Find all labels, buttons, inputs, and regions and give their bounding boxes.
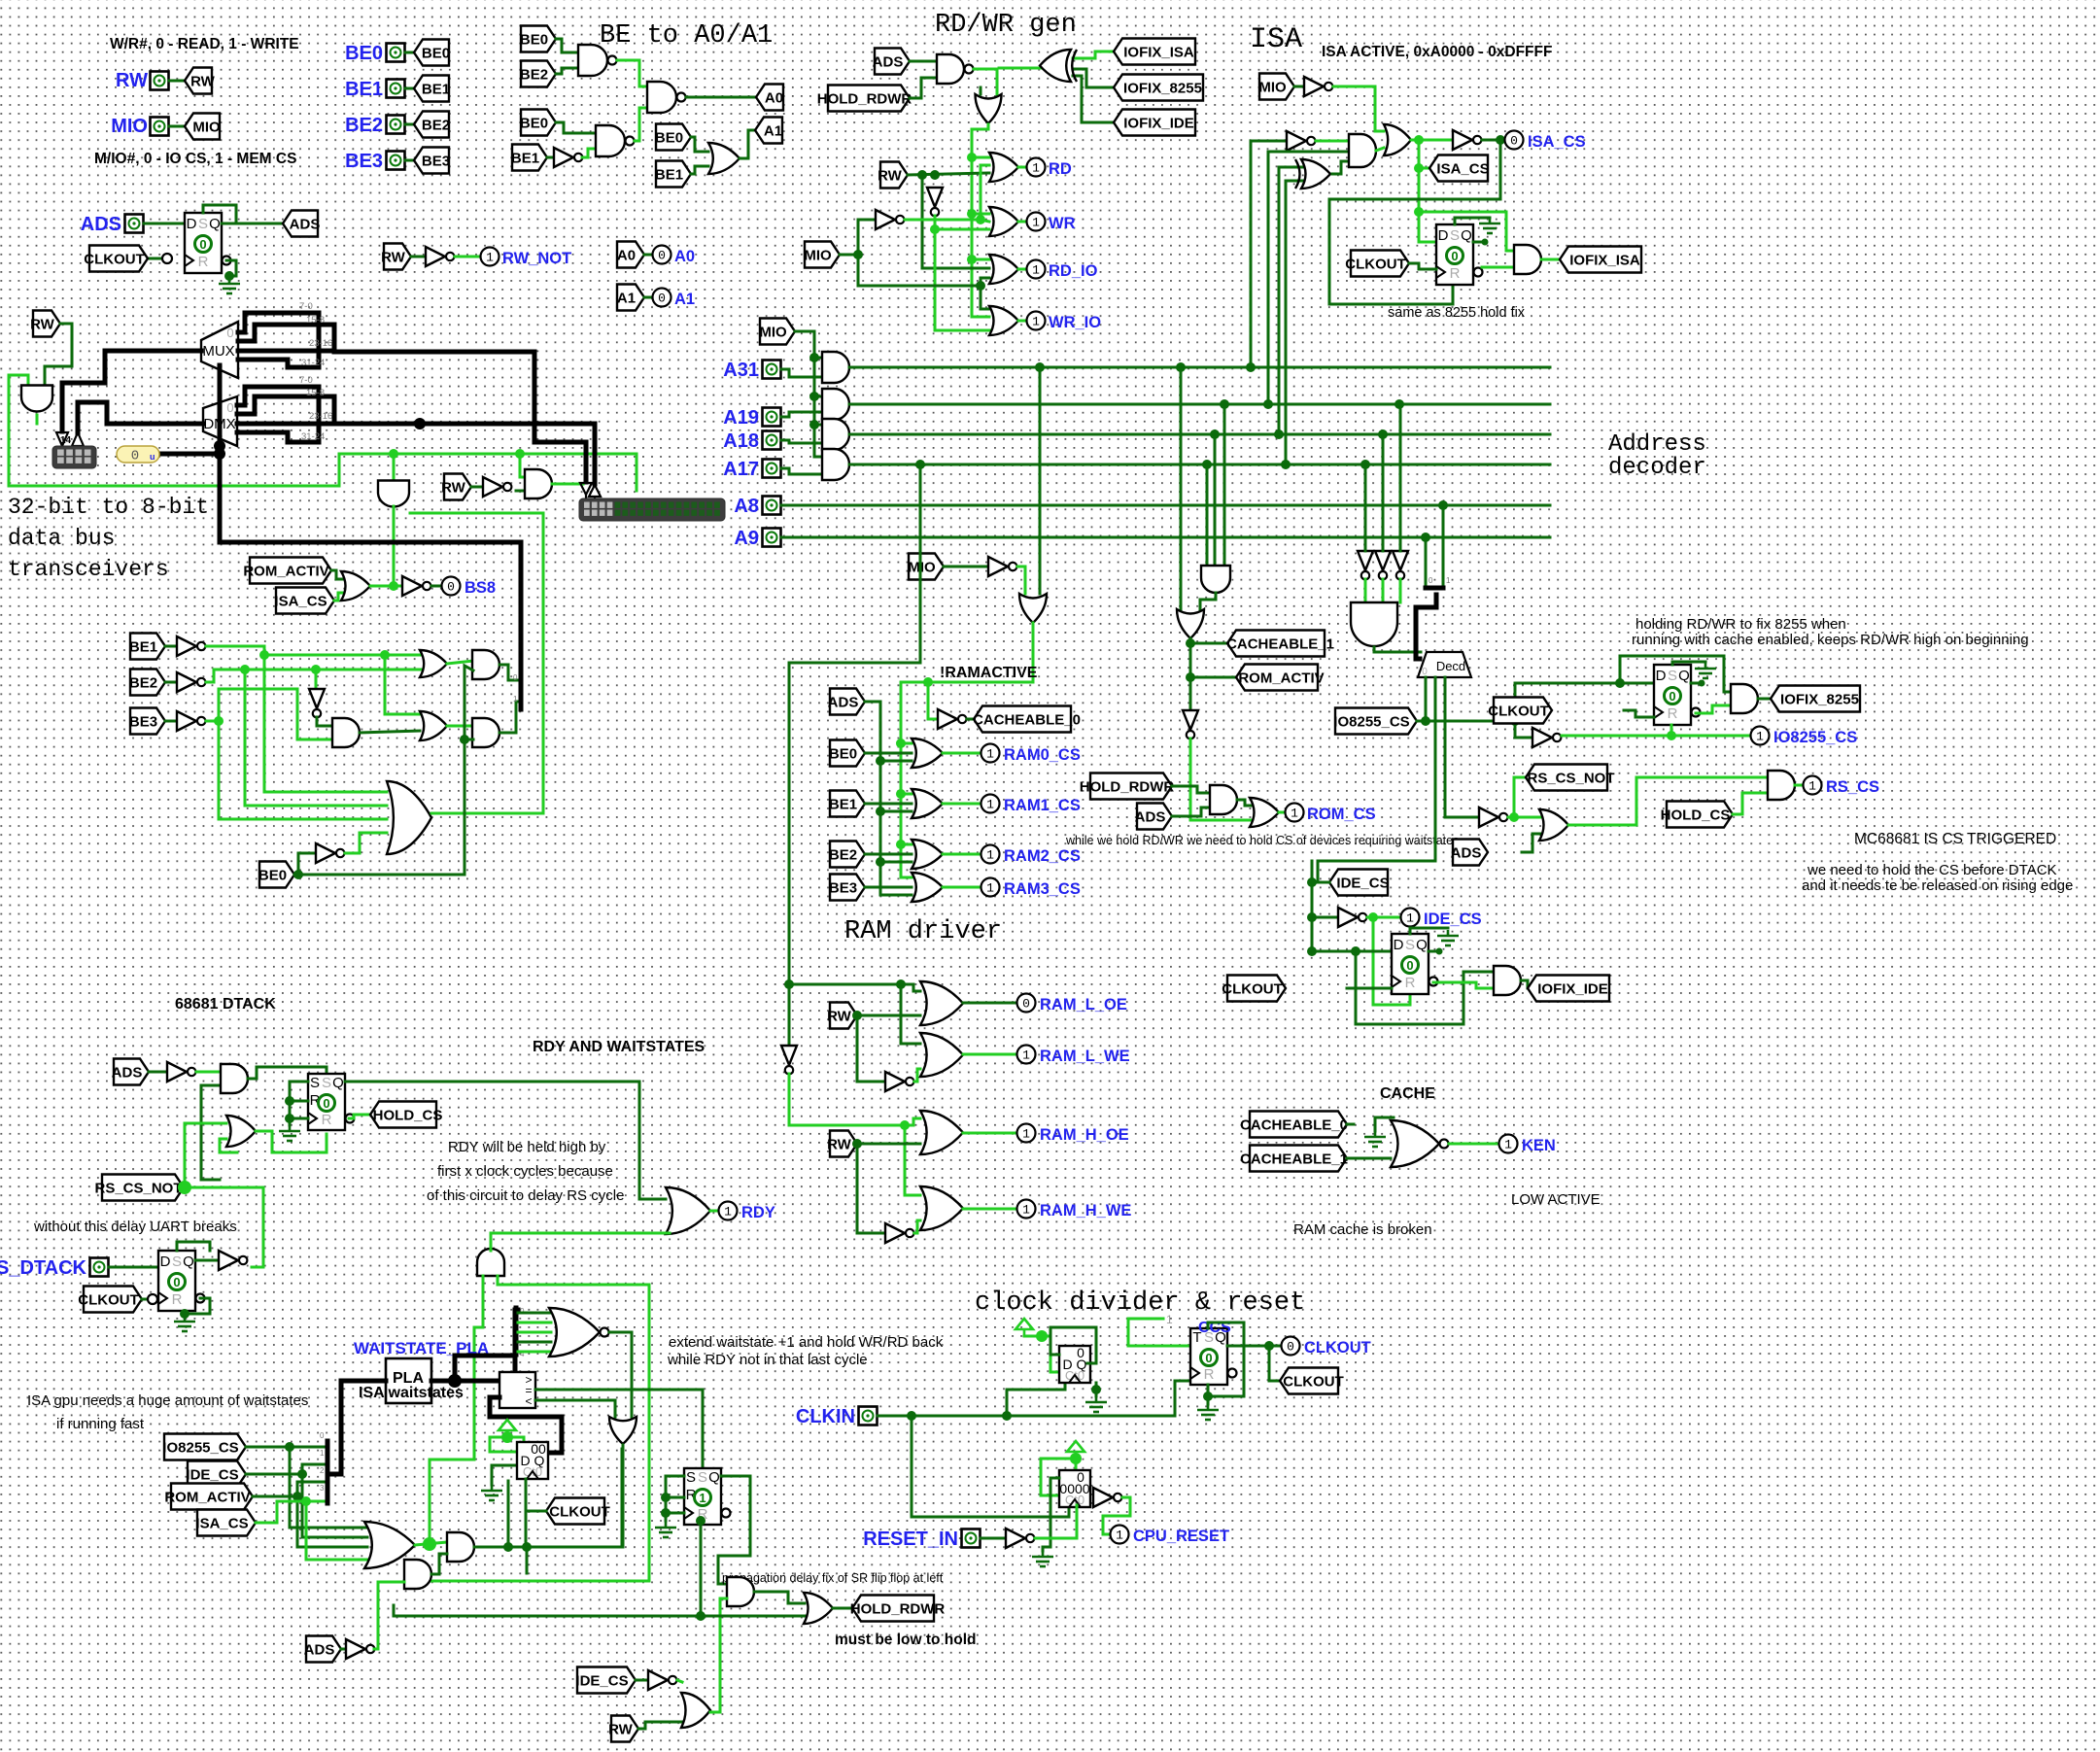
NOT gate (MIO ram) — [988, 557, 1016, 576]
svg-text:IOFIX_8255: IOFIX_8255 — [1123, 81, 1202, 97]
wire RESET_IN to NOT — [981, 1537, 1006, 1540]
input ADS — [125, 215, 144, 233]
svg-text:0: 0 — [1422, 667, 1428, 677]
wire RAMACTIVE to NAND — [901, 742, 912, 745]
splitter bar (trx) — [519, 672, 524, 709]
svg-text:BE0: BE0 — [258, 868, 287, 884]
wire VCC divider a — [1024, 1335, 1042, 1338]
svg-text:1: 1 — [1032, 216, 1040, 230]
wire enable right end down — [636, 454, 638, 491]
wire BE3 to tunnel — [405, 159, 414, 162]
wire gnd to U7 R — [666, 1496, 684, 1499]
svg-text:IDE_CS: IDE_CS — [1424, 910, 1482, 928]
junction MIO — [853, 250, 863, 259]
junction RWn — [930, 224, 940, 234]
tunnel CLKOUT (U1) — [84, 246, 148, 272]
ground U6 — [174, 1316, 195, 1331]
AND gate (A18) — [822, 419, 849, 450]
svg-text:RAM_H_WE: RAM_H_WE — [1040, 1202, 1131, 1220]
wire VCC reset loop — [1041, 1459, 1076, 1495]
svg-text:S: S — [172, 1254, 182, 1270]
tunnel MIO (ISA) — [1258, 74, 1294, 100]
wire IDE to OR (PLA) — [302, 1474, 367, 1537]
OR gate (hold merge, down) — [976, 94, 1002, 123]
wire A19 to AND cache — [1223, 404, 1226, 566]
wire IDE_CS to U4 reset — [1373, 917, 1410, 1005]
OR gate (RAM_H_OE) — [920, 1111, 963, 1154]
svg-text:BE1: BE1 — [511, 151, 539, 167]
svg-text:CACHEABLE_0: CACHEABLE_0 — [1240, 1117, 1348, 1134]
U2 Q pin dot — [1482, 239, 1489, 246]
output BS8 value — [442, 577, 461, 596]
output RS_CS value — [1804, 776, 1822, 795]
svg-text:MIO: MIO — [908, 560, 936, 576]
svg-text:RAM_H_OE: RAM_H_OE — [1040, 1126, 1129, 1144]
svg-text:BE0: BE0 — [422, 46, 450, 62]
ground U1 — [219, 278, 240, 293]
junction ISA PLA — [301, 1496, 311, 1506]
svg-text:RW: RW — [441, 480, 466, 497]
svg-text:ROM_ACTIV: ROM_ACTIV — [164, 1490, 250, 1506]
junction RAMACTIVE row — [896, 739, 906, 748]
svg-text:A9: A9 — [734, 528, 759, 549]
wire RWn out — [934, 216, 937, 229]
tunnel ADS (DTACK) — [112, 1059, 149, 1085]
svg-text:ADS: ADS — [828, 695, 859, 711]
wire BE1 to NOT — [547, 156, 554, 159]
wire BE1n to big OR — [264, 655, 387, 792]
wire NOR out down — [609, 1332, 632, 1417]
svg-text:HOLD_CS: HOLD_CS — [373, 1108, 443, 1124]
tunnel RW (driver en) — [441, 474, 471, 500]
svg-text:IOFIX_ISA: IOFIX_ISA — [1123, 45, 1194, 61]
wire NOTdown to ROM_CS OR — [1190, 739, 1251, 820]
wire A19 to T3 — [1399, 404, 1402, 551]
svg-text:RAM3_CS: RAM3_CS — [1004, 880, 1081, 898]
svg-text:1: 1 — [986, 848, 994, 863]
tunnel MIO (addr) — [759, 319, 795, 345]
wire OR down out (waitstate) — [622, 1445, 625, 1547]
wire U4 S to ground — [1410, 928, 1448, 934]
wire W1 up branch — [507, 1481, 510, 1547]
junction ISA_CS to AND — [1414, 207, 1424, 217]
svg-text:BE3: BE3 — [829, 880, 857, 897]
svg-text:RAM0_CS: RAM0_CS — [1004, 746, 1081, 764]
output WR_IO value — [1027, 312, 1046, 330]
tunnel IOFIX_IDE (source) — [1528, 976, 1609, 1002]
svg-text:ISA gpu needs a huge amount of: ISA gpu needs a huge amount of waitstate… — [27, 1392, 308, 1409]
svg-text:0: 0 — [1451, 249, 1458, 263]
tunnel A1 (dest) — [755, 118, 782, 144]
wire NOT out to RW_NOT pin — [455, 256, 480, 258]
svg-text:A18: A18 — [723, 430, 759, 452]
svg-text:ADS: ADS — [873, 54, 904, 71]
svg-text:extend waitstate +1 and hold W: extend waitstate +1 and hold WR/RD back — [669, 1334, 944, 1351]
wire OR to HOLD_RDWR tunnel — [833, 1607, 852, 1610]
AND gate (driver en) — [525, 469, 552, 498]
tunnel ADS (RD/WR gen) — [873, 49, 910, 75]
wire IO8255_CS to splitter — [246, 1446, 325, 1449]
output RAM0_CS value — [981, 744, 1000, 763]
svg-text:S: S — [322, 1075, 331, 1091]
output RAM1_CS value — [981, 795, 1000, 813]
svg-text:RAM driver: RAM driver — [844, 917, 1002, 946]
svg-text:14: 14 — [60, 435, 72, 446]
junction CACHEABLE_1 — [1186, 638, 1195, 648]
wire eq line — [535, 1389, 703, 1391]
wire BE2 to tunnel — [405, 123, 414, 126]
tunnel ISA_CS (PLA) — [195, 1510, 256, 1536]
svg-text:ADS: ADS — [81, 214, 121, 235]
junction IDE_CS — [1368, 912, 1378, 922]
svg-text:BE3: BE3 — [345, 151, 383, 172]
junction RS_CS_NOT — [1509, 812, 1519, 822]
wire RWn to OR WR_IO — [935, 229, 989, 330]
svg-text:HOLD_RDWR: HOLD_RDWR — [1080, 779, 1175, 796]
wire OR IDE to AND (prop) — [720, 1598, 727, 1712]
wire U1 Q to ADS tunnel — [222, 223, 283, 225]
NOT gate (U6 Q) — [219, 1251, 247, 1270]
svg-text:D: D — [187, 216, 197, 232]
wire V1 to OR WR — [972, 213, 989, 216]
input A9 — [763, 529, 781, 547]
junction A19 T3 — [1394, 399, 1404, 409]
input MIO — [151, 118, 169, 136]
junction U5 gnd a — [285, 1096, 294, 1106]
junction A17 cache — [1202, 460, 1212, 469]
tunnel ROM_ACTIV (BS8) — [243, 558, 331, 584]
svg-text:ROM_CS: ROM_CS — [1307, 806, 1376, 823]
tunnel BE0 (to OR A1) — [655, 124, 691, 151]
wire big AND to Decd — [1374, 647, 1421, 652]
junction BS8 — [389, 581, 398, 591]
wire U7 gnd vertical — [665, 1476, 668, 1521]
bus probe link — [157, 452, 220, 457]
svg-text:RW: RW — [827, 1009, 852, 1025]
tunnel BE3 (source) — [414, 148, 450, 174]
junction MIO A19 — [809, 392, 819, 401]
junction cacheable0 — [923, 677, 933, 687]
svg-text:while we hold RD/WR we need to: while we hold RD/WR we need to hold CS o… — [1065, 834, 1459, 847]
tunnel ISA_CS (dest) — [1429, 155, 1490, 182]
bus DMX in from driver — [78, 402, 203, 433]
bus MUX nest inner — [238, 325, 334, 352]
svg-text:R: R — [172, 1291, 183, 1308]
supply VCC (counter) — [499, 1420, 516, 1438]
comparator — [499, 1372, 535, 1408]
svg-text:MC68681 IS CS TRIGGERED: MC68681 IS CS TRIGGERED — [1854, 831, 2056, 847]
junction IO8255 a — [1421, 716, 1430, 726]
counter divider 1 — [1059, 1345, 1090, 1383]
svg-text:A8: A8 — [734, 496, 759, 517]
tunnel IOFIX_8255 (source) — [1771, 686, 1860, 712]
wire to RAM_L_WE pin — [963, 1053, 1016, 1056]
junction RAMACTIVE row — [896, 789, 906, 799]
wire to RAM_L_OE pin — [963, 1002, 1016, 1005]
tunnel BE1 (to NOT) — [511, 145, 547, 171]
tunnel RW (RAM L) — [827, 1003, 857, 1029]
svg-text:0: 0 — [1510, 134, 1518, 149]
svg-text:CLKOUT: CLKOUT — [1488, 704, 1549, 720]
wire transceiver enable loop — [9, 375, 339, 486]
tunnel HOLD_CS (source) — [370, 1102, 442, 1128]
svg-text:Q: Q — [183, 1254, 194, 1270]
svg-text:A17: A17 — [723, 459, 759, 480]
svg-text:S: S — [698, 1469, 707, 1486]
wire counter reset down — [1050, 1478, 1052, 1547]
G1 bubble — [608, 56, 617, 65]
wire divider feedback — [1050, 1327, 1096, 1363]
NOT gate (BE2n, down) — [309, 689, 325, 717]
svg-text:IO8255_CS: IO8255_CS — [162, 1440, 238, 1457]
junction A9 split — [1421, 532, 1430, 542]
wire BE2n line — [206, 670, 421, 682]
svg-text:A0: A0 — [765, 90, 783, 107]
wire waitstate OR to ANDup — [430, 1276, 483, 1538]
wire A18 to AND — [781, 440, 822, 443]
wire IOFIX_ISA to XOR — [1073, 52, 1114, 58]
svg-text:BE to A0/A1: BE to A0/A1 — [600, 21, 773, 51]
wire BE0 to OR A1 — [691, 137, 708, 152]
junction RW H — [852, 1139, 862, 1149]
wire AND mid to OR2 — [360, 731, 420, 733]
junction BE3n — [214, 716, 224, 726]
junction CLKIN b — [1002, 1411, 1012, 1421]
svg-text:RAM_L_OE: RAM_L_OE — [1040, 996, 1127, 1013]
AND gate (BS8 branch, down) — [378, 481, 409, 507]
svg-text:RDY: RDY — [741, 1204, 775, 1221]
svg-text:CLKOUT: CLKOUT — [549, 1504, 610, 1521]
wire ANDup out — [490, 1233, 493, 1251]
svg-text:ISA_CS: ISA_CS — [1528, 133, 1586, 151]
wire NOT to AND (driver) — [516, 490, 525, 493]
wire gnd to U7 clk — [666, 1512, 684, 1515]
svg-text:M/IO#, 0 - IO CS, 1 - MEM CS: M/IO#, 0 - IO CS, 1 - MEM CS — [94, 151, 296, 167]
tunnel ADS (from U1) — [283, 211, 320, 237]
wire A18 line to XOR (ISA) — [1279, 167, 1302, 434]
NOT gate (RW H) — [885, 1223, 913, 1243]
wire IO8255 to OR (PLA) — [290, 1447, 367, 1528]
OR gate 1 (trx) — [420, 650, 447, 677]
junction VCC reset — [1070, 1453, 1082, 1464]
svg-text:1: 1 — [1406, 911, 1414, 926]
svg-text:MIO: MIO — [111, 116, 148, 137]
tunnel CLKOUT (U4) — [1222, 976, 1286, 1002]
OR gate (RD_IO) — [989, 255, 1018, 284]
splitter bar (PLA in) — [326, 1441, 330, 1503]
junction U4 loop — [1351, 946, 1360, 956]
wire AND to drivers — [552, 483, 583, 486]
tunnel MIO (RD/WR gen) — [804, 242, 840, 268]
svg-text:31-24: 31-24 — [301, 431, 325, 442]
wire ROM_ACTIV to splitter — [253, 1482, 325, 1496]
junction V1 RD — [967, 153, 977, 162]
bus MUX pin3 — [238, 349, 334, 354]
wire RAMACTIVEn to OE H — [789, 1074, 920, 1125]
OR gate (ISA_CS) — [1384, 124, 1411, 155]
wire splitter2 out 0 — [518, 1312, 551, 1315]
input A18 — [763, 431, 781, 450]
svg-text:transceivers: transceivers — [8, 557, 169, 582]
svg-text:WR: WR — [1049, 215, 1076, 232]
svg-text:W/R#, 0 - READ, 1 - WRITE: W/R#, 0 - READ, 1 - WRITE — [110, 36, 299, 52]
junction BE2n b — [311, 665, 321, 674]
OR gate (RS hold) — [1539, 809, 1568, 841]
wire RW to OR RD_IO — [922, 175, 989, 268]
svg-text:ISA_CS: ISA_CS — [1436, 161, 1489, 178]
svg-text:1: 1 — [699, 1491, 706, 1505]
wire MIO out — [840, 254, 858, 257]
wire AND down 2 out — [393, 506, 396, 586]
wire BE2 to NOT (trx) — [165, 681, 177, 684]
junction BE1n a — [259, 650, 269, 660]
AND gate (prop fix) — [727, 1577, 754, 1606]
AND gate (ROM_CS) — [1210, 785, 1237, 814]
wire BE3n to AND mid — [219, 689, 333, 739]
wire RS_DTACK to U6 — [109, 1266, 158, 1269]
wire loop to AND (8255) — [1620, 656, 1731, 692]
svg-text:CACHEABLE_0: CACHEABLE_0 — [973, 712, 1081, 729]
wire A9 line — [781, 536, 1550, 539]
wire W1 to OR up — [531, 1449, 622, 1547]
svg-text:RW: RW — [878, 168, 903, 185]
tunnel ADS (RS) — [1451, 840, 1488, 866]
wire AND to OR (HOLD_RDWR) — [754, 1592, 805, 1603]
wire MIOn to OR (ISA) — [1333, 86, 1384, 131]
wire OR to RD pin — [1018, 166, 1026, 169]
wire A19 line — [849, 403, 1550, 406]
tunnel BE0 (source) — [414, 40, 450, 66]
svg-text:running with cache enabled, ke: running with cache enabled, keeps RD/WR … — [1632, 632, 2029, 648]
wire A31 line to NOT (ISA) — [1251, 141, 1287, 367]
wire VCC divider b — [1042, 1336, 1059, 1372]
junction ADS row — [876, 807, 885, 816]
AND gate (RDY gate, up) — [477, 1249, 504, 1276]
svg-text:ISA waitstates: ISA waitstates — [359, 1385, 464, 1401]
svg-text:3: 3 — [320, 1484, 325, 1493]
svg-text:MIO: MIO — [192, 120, 221, 136]
tunnel CLKOUT (U3) — [1488, 698, 1552, 724]
wire big OR out — [431, 812, 543, 815]
tunnel BE0 (trx) — [258, 862, 294, 888]
svg-text:1: 1 — [1022, 1127, 1030, 1142]
wire BE0 to NAND3 — [556, 122, 596, 133]
svg-text:BE2: BE2 — [422, 118, 450, 134]
LED matrix display 2 — [579, 498, 725, 521]
junction ROM PLA — [293, 1492, 302, 1501]
output IO8255_CS value — [1751, 727, 1770, 745]
tunnel BE2 (to NAND1) — [520, 61, 556, 87]
wire U4 Qn to AND — [1433, 982, 1494, 988]
splitter bar (NOR in) — [514, 1308, 519, 1355]
tunnel ADS (ROM_CS) — [1135, 804, 1172, 830]
AND gate (IOFIX_8255) — [1731, 684, 1758, 713]
wire AND out (IDE) — [1521, 980, 1528, 988]
U1 clock bubble — [162, 254, 172, 263]
svg-text:CACHEABLE_1: CACHEABLE_1 — [1226, 636, 1334, 653]
svg-text:0: 0 — [1022, 997, 1030, 1012]
wire gnd to counter — [492, 1465, 517, 1485]
NOT gate (RS_CS_NOT) — [1479, 807, 1507, 827]
wire loop to AND (IDE) — [1356, 951, 1494, 1024]
wire to RAM_H_WE pin — [963, 1208, 1016, 1211]
OR gate (RDY) — [666, 1187, 710, 1234]
AND gate (transceiver en, down) — [21, 386, 52, 412]
NOT gate T3 (down) — [1393, 551, 1408, 579]
svg-text:IOFIX_ISA: IOFIX_ISA — [1569, 253, 1640, 269]
wire BE1 to OR A1 — [691, 166, 708, 174]
svg-text:15-8: 15-8 — [306, 315, 325, 326]
wire A17 to AND cache — [1206, 464, 1209, 566]
wire CLKOUT to U4 clock — [1347, 987, 1392, 990]
bus counter to comparator — [490, 1397, 562, 1453]
wire OR to RAM0_CS pin — [943, 752, 981, 755]
wire A17 to T1 — [1364, 464, 1367, 551]
junction V1 WR — [967, 209, 977, 219]
wire U5 Qn to HOLD_CS — [349, 1115, 370, 1118]
svg-text:23-16: 23-16 — [309, 411, 332, 422]
junction RW b — [930, 170, 940, 180]
junction A8 split — [1438, 500, 1448, 510]
wire cacheable vertical — [1189, 638, 1192, 710]
junction OE H — [900, 1120, 910, 1130]
D flip-flop U2 (ISA hold) — [1436, 224, 1483, 285]
svg-text:ROM_ACTIV: ROM_ACTIV — [243, 564, 328, 580]
junction U1 ground — [224, 271, 234, 281]
svg-text:holding RD/WR to fix 8255 when: holding RD/WR to fix 8255 when — [1635, 616, 1846, 633]
AND gate (A31) — [822, 352, 849, 383]
junction ISA_CS dark — [1496, 135, 1505, 145]
svg-text:BE1: BE1 — [829, 797, 857, 813]
supply VCC (reset) — [1067, 1441, 1084, 1460]
U6 clock bubble — [148, 1294, 157, 1304]
svg-text:0: 0 — [1669, 689, 1675, 704]
tunnel CACHEABLE_1 (source) — [1240, 1146, 1348, 1172]
wire RW to OE H — [857, 1143, 920, 1146]
tunnel RW (transceiver) — [30, 311, 60, 337]
wire enable to AND down 2 — [393, 454, 396, 481]
wire counter reset in — [1050, 1477, 1059, 1480]
tunnel RW (RAM H) — [827, 1131, 857, 1157]
svg-text:S: S — [310, 1075, 320, 1091]
junction W1 a — [503, 1542, 513, 1552]
junction U7 gnd b — [661, 1508, 671, 1518]
junction BE2n a — [240, 665, 250, 674]
wire RAMACTIVE bright vertical — [901, 682, 912, 877]
AND gate W2 — [404, 1560, 431, 1589]
svg-text:ADS: ADS — [304, 1642, 335, 1659]
OR gate (ROM_CS) — [1250, 798, 1279, 827]
wire U6 Qn down — [185, 1298, 210, 1314]
tunnel ADS (RAM) — [828, 689, 865, 715]
wire ADS to OR (RS) — [1522, 834, 1540, 852]
svg-text:<: < — [525, 1394, 532, 1408]
svg-text:68681 DTACK: 68681 DTACK — [175, 996, 276, 1013]
wire RAMACTIVE out — [901, 623, 1033, 682]
NOT gate T2 (down) — [1375, 551, 1391, 579]
svg-text:IO8255_CS: IO8255_CS — [1773, 729, 1857, 746]
junction U3 reset — [1667, 731, 1676, 740]
tunnel RS_CS_NOT (source) — [94, 1175, 184, 1201]
wire U6 feedback — [177, 1242, 210, 1251]
svg-text:RW: RW — [381, 250, 406, 266]
input BE1 — [387, 80, 405, 98]
output A1 value — [653, 289, 671, 307]
wire BE3n to big OR — [219, 721, 387, 819]
decoder Decd — [1418, 652, 1471, 677]
wire CLKIN to counter2 — [912, 1416, 1069, 1517]
svg-text:Q: Q — [332, 1075, 344, 1091]
